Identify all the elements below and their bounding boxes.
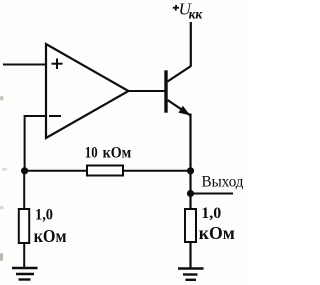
op-amp non-inverting input plus sign [52,59,63,70]
value label 10 кОм [85,144,131,161]
wire: non-inverting input lead [3,64,46,66]
value label 1,0 кОм (right) [199,205,235,243]
node B junction dot [187,167,194,174]
svg-text:1,0: 1,0 [35,207,53,224]
scan speck [0,253,3,261]
power label +Ukk [173,0,204,22]
svg-text:кОм: кОм [103,144,132,161]
ground (left) [12,268,38,280]
svg-text:кОм: кОм [34,226,67,246]
wire: emitter down to node B [189,114,191,172]
wire: node C down to right resistor [189,194,191,210]
ground (right) [178,269,204,280]
svg-text:1,0: 1,0 [201,205,221,222]
op-amp U1 [46,44,129,138]
wire: inverting input vertical segment down to node A [24,115,26,171]
node A junction dot [21,167,28,174]
scan speck [0,96,4,101]
svg-text:10: 10 [85,144,98,161]
wire: node A to feedback resistor [25,170,87,172]
resistor 1,0 кОм (left) [19,209,29,243]
scan speck [2,168,7,171]
op-amp inverting input minus sign [49,115,61,117]
scan speck [0,206,4,210]
wire: left resistor to ground [23,243,25,268]
wire: feedback resistor to node B [123,170,191,172]
wire: output lead [191,193,234,195]
svg-text:кк: кк [189,7,204,22]
transistor Q1 [164,66,191,115]
wire: op-amp output to transistor base [128,90,165,92]
node C junction dot (output node) [187,190,194,197]
wire: inverting input horizontal segment [25,115,46,117]
net label Выход [202,174,244,191]
wire: node A down to left resistor [23,171,25,209]
value label 1,0 кОм (left) [34,207,67,246]
resistor 10 kOm (feedback) [87,166,123,176]
svg-text:Выход: Выход [202,174,244,191]
wire: right resistor to ground [189,242,191,269]
resistor 1,0 кОм (right) [185,209,196,242]
svg-text:кОм: кОм [199,223,235,243]
wire: collector up to +Ukk [190,22,192,67]
wire: node B to node C [189,171,191,194]
